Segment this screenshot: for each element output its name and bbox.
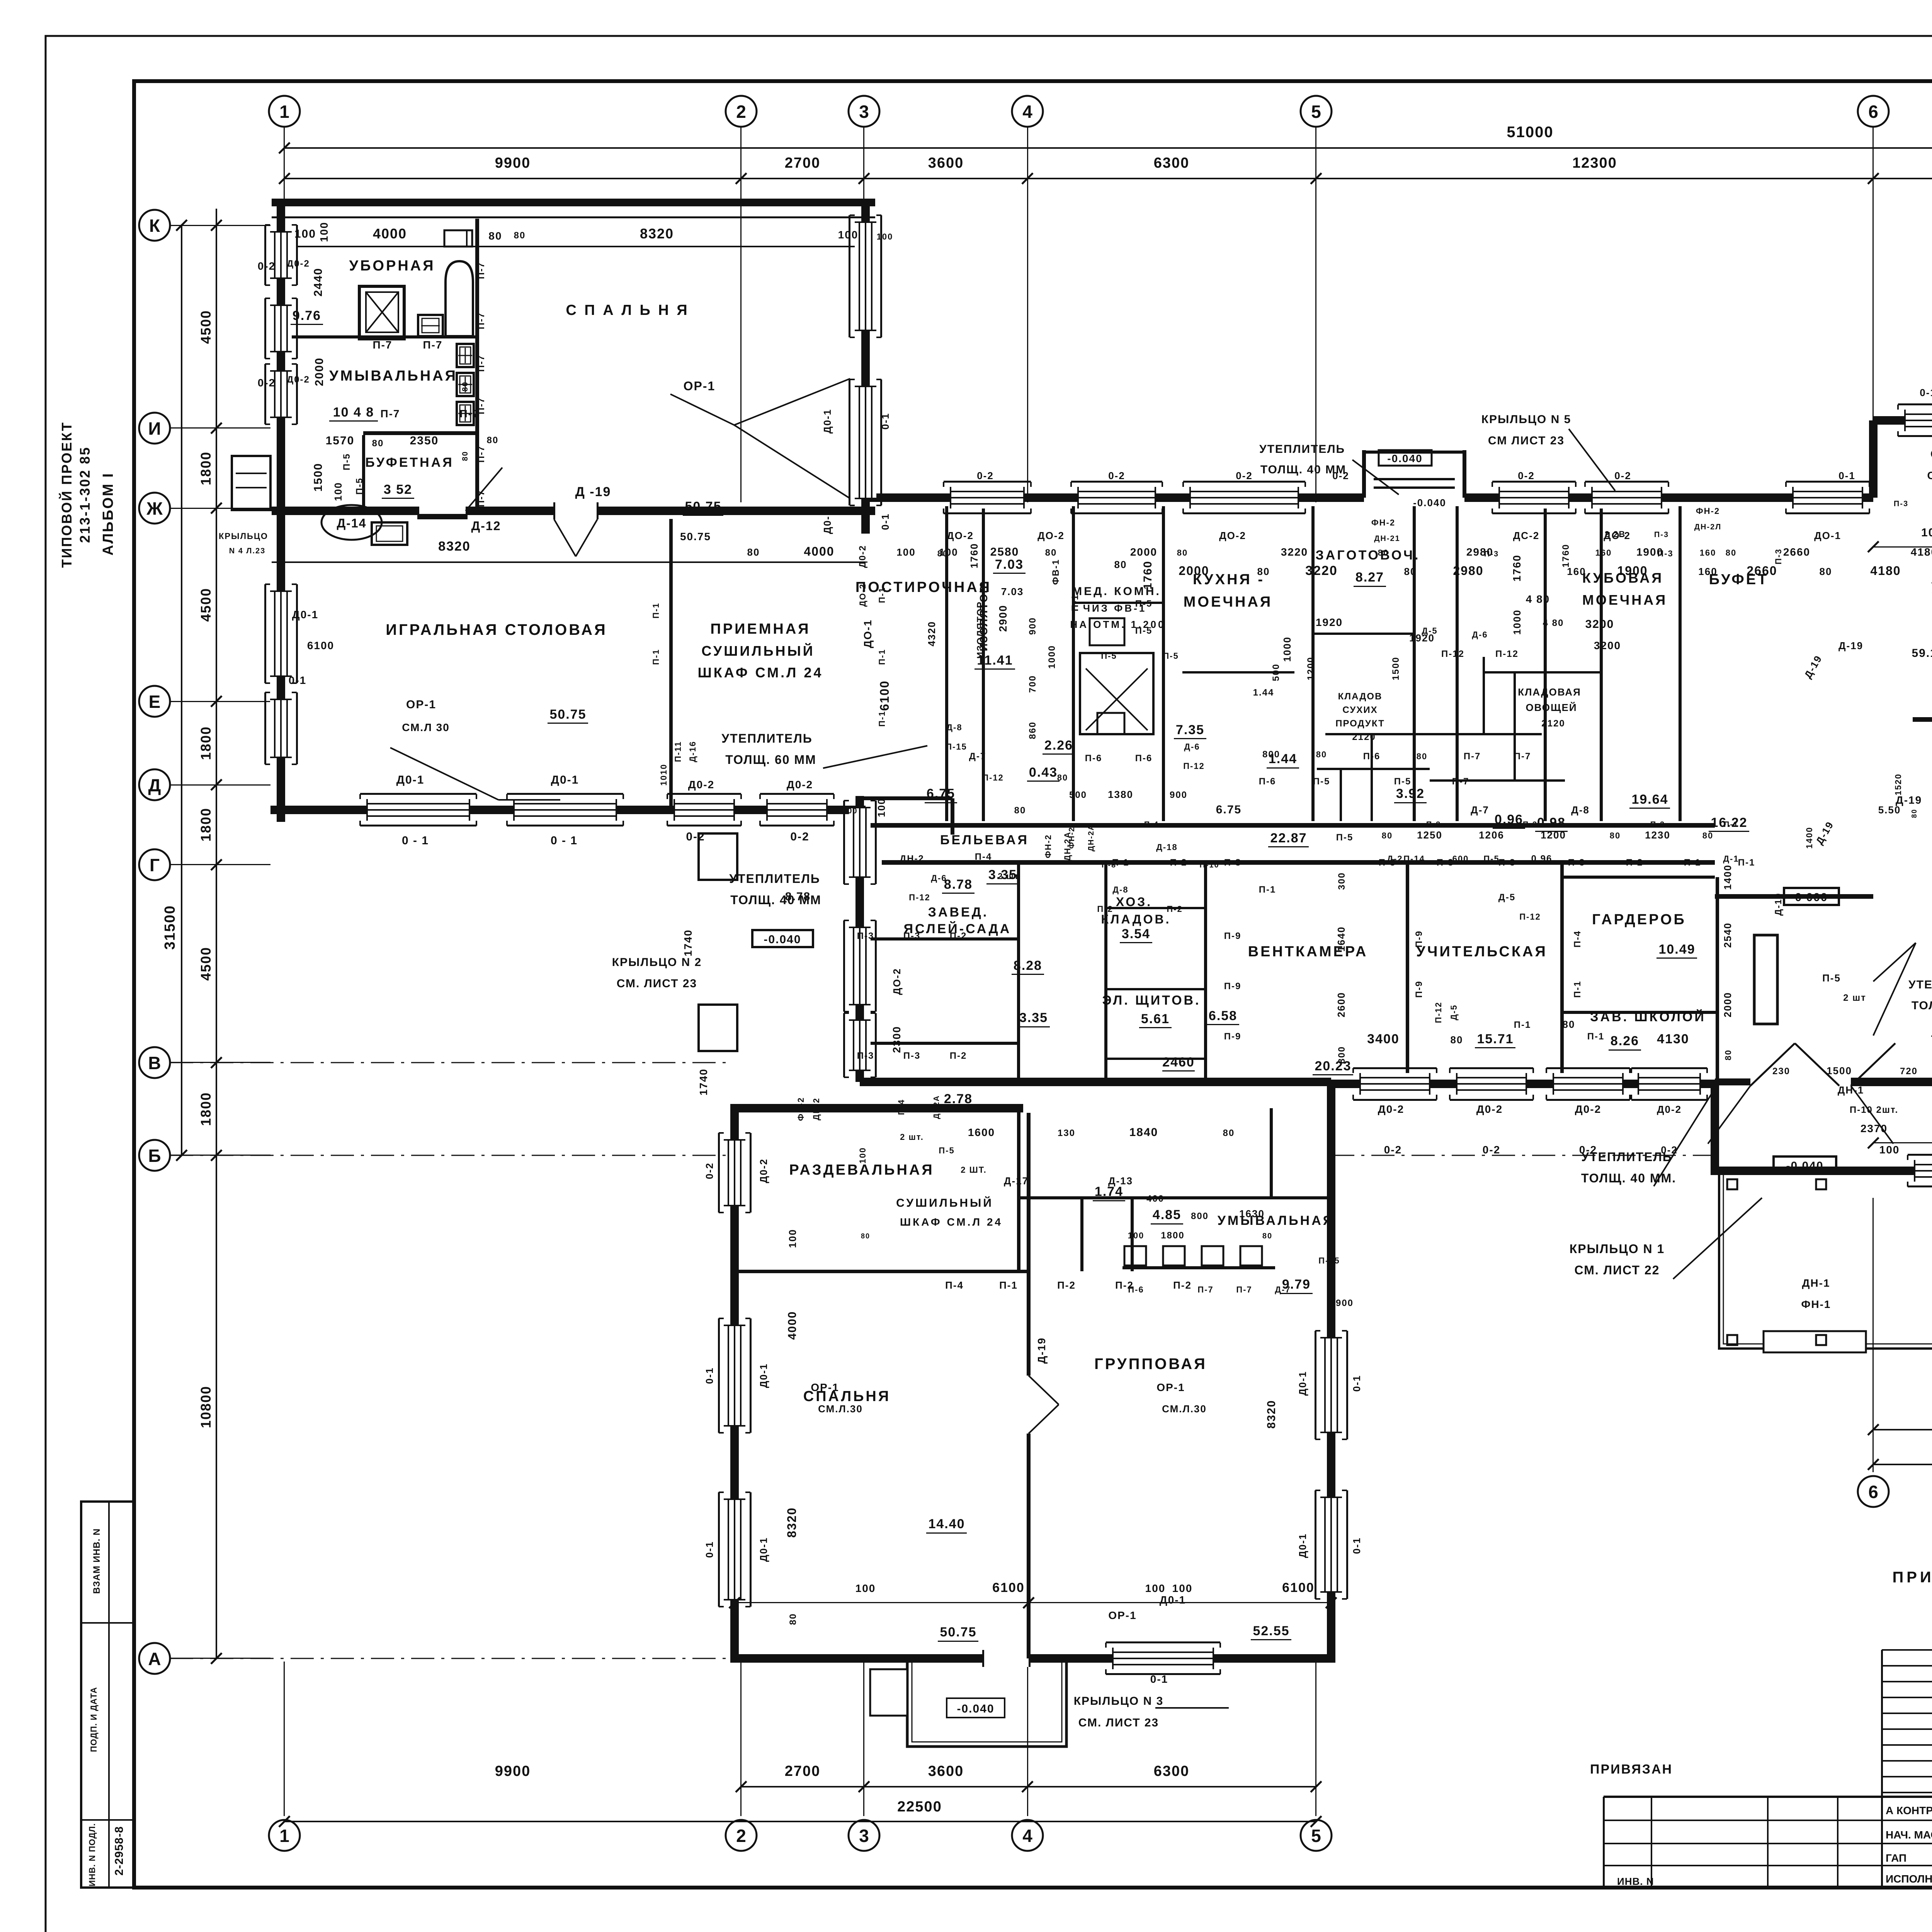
svg-text:1900: 1900 — [1617, 564, 1648, 578]
svg-text:П-7: П-7 — [1452, 776, 1469, 787]
svg-text:П-12: П-12 — [1183, 761, 1205, 771]
svg-text:Д0-1: Д0-1 — [1297, 1533, 1308, 1558]
svg-text:300: 300 — [1337, 872, 1347, 890]
svg-text:П-1: П-1 — [1572, 981, 1583, 998]
title block left small table — [1882, 1649, 1932, 1651]
svg-text:П-15: П-15 — [1318, 1256, 1340, 1265]
sink below wall — [372, 522, 407, 545]
right wing bottom wall (B axis) — [1711, 1167, 1932, 1175]
svg-text:П-7: П-7 — [476, 446, 486, 463]
svg-text:Д0-2: Д0-2 — [1657, 1104, 1682, 1115]
G wall right segment — [1851, 1078, 1932, 1086]
svg-text:1500: 1500 — [312, 463, 325, 492]
svg-text:ПОСТИРОЧНАЯ: ПОСТИРОЧНАЯ — [855, 579, 992, 595]
svg-text:ГАП: ГАП — [1886, 1852, 1906, 1864]
svg-text:80: 80 — [788, 1613, 798, 1625]
svg-text:-0.040: -0.040 — [764, 933, 801, 946]
svg-text:80: 80 — [461, 381, 469, 391]
svg-text:100: 100 — [1145, 1582, 1166, 1594]
svg-text:ИНВ. N ПОДЛ.: ИНВ. N ПОДЛ. — [87, 1823, 97, 1886]
svg-text:ТОЛЩ. 60 ММ: ТОЛЩ. 60 ММ — [725, 753, 816, 767]
svg-text:19.64: 19.64 — [1631, 792, 1668, 807]
svg-text:1760: 1760 — [1141, 561, 1154, 590]
bottom dims — [741, 1786, 1316, 1787]
svg-text:И: И — [148, 418, 161, 439]
svg-text:860: 860 — [1027, 721, 1038, 739]
top segment dims — [284, 178, 1932, 179]
leader lines — [670, 394, 734, 425]
svg-text:1760: 1760 — [968, 543, 980, 568]
svg-text:3220: 3220 — [1305, 563, 1338, 578]
svg-text:ТОЛЩ. 40 ММ: ТОЛЩ. 40 ММ — [730, 893, 821, 907]
partition spalnya west — [475, 219, 479, 511]
partition umyv/bufetnaya (I axis) — [363, 431, 477, 435]
svg-text:ИГРАЛЬНАЯ СТОЛОВАЯ: ИГРАЛЬНАЯ СТОЛОВАЯ — [386, 621, 607, 638]
svg-text:Д0-1: Д0-1 — [758, 1363, 769, 1388]
svg-text:Д0-2: Д0-2 — [1378, 1103, 1404, 1115]
svg-text:ФН-2: ФН-2 — [1043, 834, 1053, 858]
svg-text:4000: 4000 — [786, 1311, 799, 1340]
svg-text:1800: 1800 — [198, 451, 214, 485]
svg-text:Д-5: Д-5 — [1498, 892, 1515, 903]
svg-text:80: 80 — [1820, 566, 1832, 577]
svg-text:0 000: 0 000 — [1795, 891, 1828, 904]
svg-text:4: 4 — [1022, 1826, 1032, 1846]
svg-text:7.03: 7.03 — [995, 557, 1024, 572]
svg-text:Д-5: Д-5 — [1449, 1004, 1459, 1020]
kitchen inner partitions — [1073, 602, 1163, 604]
bottom wing east windows — [1320, 1338, 1342, 1432]
svg-text:160: 160 — [1595, 548, 1612, 558]
svg-text:1000: 1000 — [1047, 645, 1057, 668]
svg-text:П-2: П-2 — [1167, 904, 1182, 914]
svg-text:П-4: П-4 — [975, 852, 992, 862]
shkaf rect in recreation — [1754, 935, 1777, 1024]
svg-text:П-1: П-1 — [877, 649, 887, 665]
svg-text:П-7: П-7 — [476, 490, 486, 507]
svg-text:31500: 31500 — [162, 905, 178, 950]
svg-text:П-5: П-5 — [1163, 651, 1179, 661]
svg-text:ОР-1: ОР-1 — [1156, 1381, 1185, 1393]
svg-text:1200: 1200 — [1541, 829, 1566, 841]
svg-text:1500: 1500 — [1391, 656, 1401, 680]
svg-text:СМ. ЛИСТ 22: СМ. ЛИСТ 22 — [1575, 1263, 1660, 1277]
right wing west wall upper — [1869, 420, 1878, 498]
svg-text:80: 80 — [1563, 1019, 1575, 1030]
svg-text:80: 80 — [1723, 1049, 1733, 1060]
svg-text:2000: 2000 — [1179, 564, 1209, 578]
svg-text:К: К — [149, 216, 160, 236]
mid-left west windows — [849, 808, 871, 877]
svg-text:1800: 1800 — [198, 1092, 214, 1126]
svg-text:ЭЛ. ЩИТОВ.: ЭЛ. ЩИТОВ. — [1102, 993, 1201, 1008]
svg-text:4500: 4500 — [198, 310, 214, 344]
svg-text:2 ШТ.: 2 ШТ. — [961, 1165, 987, 1175]
svg-text:СУХИХ: СУХИХ — [1342, 705, 1378, 715]
svg-text:0-1: 0-1 — [1838, 470, 1855, 481]
porch 3 — [907, 1663, 1066, 1747]
svg-text:П-1: П-1 — [999, 1279, 1018, 1291]
svg-text:2 шт: 2 шт — [998, 871, 1019, 881]
svg-text:УТЕПЛИТЕЛЬ: УТЕПЛИТЕЛЬ — [729, 872, 820, 886]
svg-text:3600: 3600 — [928, 155, 964, 171]
svg-text:4180: 4180 — [1870, 564, 1901, 578]
svg-text:0.43: 0.43 — [1029, 765, 1058, 780]
svg-text:2-2958-8: 2-2958-8 — [113, 1826, 126, 1876]
svg-text:КРЫЛЬЦО N 3: КРЫЛЬЦО N 3 — [1074, 1695, 1164, 1708]
svg-text:СМ.Л.30: СМ.Л.30 — [1162, 1403, 1207, 1415]
svg-text:П-4: П-4 — [1144, 820, 1159, 829]
cistern box top — [444, 230, 472, 247]
svg-text:80: 80 — [1316, 750, 1327, 759]
svg-text:Д0-2: Д0-2 — [1575, 1103, 1601, 1115]
svg-text:СМ.Л.30: СМ.Л.30 — [818, 1403, 863, 1415]
svg-text:Д0-1: Д0-1 — [396, 774, 425, 786]
svg-text:П-5: П-5 — [1394, 776, 1412, 787]
svg-text:3: 3 — [859, 1826, 869, 1846]
svg-text:700: 700 — [1027, 675, 1038, 693]
svg-text:П-9: П-9 — [1224, 981, 1242, 992]
top-left east wall windows (O-1) — [855, 222, 876, 330]
svg-text:П-12: П-12 — [909, 893, 930, 902]
svg-text:-0.040: -0.040 — [1786, 1160, 1823, 1172]
svg-text:0-2: 0-2 — [258, 260, 276, 272]
porch 4 (top-left) — [232, 456, 270, 510]
svg-text:100: 100 — [787, 1229, 798, 1248]
svg-text:ФН-1: ФН-1 — [1801, 1298, 1831, 1310]
svg-text:0-2: 0-2 — [977, 470, 994, 481]
svg-text:СМ. ЛИСТ 23: СМ. ЛИСТ 23 — [617, 977, 697, 990]
svg-text:2120: 2120 — [1541, 718, 1565, 729]
svg-text:КРЫЛЬЦО N 5: КРЫЛЬЦО N 5 — [1481, 413, 1571, 426]
svg-text:Д-19: Д-19 — [1036, 1337, 1048, 1364]
door D-19 in axis4 partition — [1020, 1376, 1037, 1434]
bottom wing inner dim line — [735, 1602, 1331, 1603]
svg-text:100: 100 — [294, 228, 316, 240]
svg-text:П-2: П-2 — [1057, 1279, 1076, 1291]
svg-text:П-3: П-3 — [1650, 820, 1665, 829]
svg-text:П-2: П-2 — [1173, 1279, 1192, 1291]
svg-text:КЛАДОВ.: КЛАДОВ. — [1101, 912, 1171, 926]
svg-text:П-7: П-7 — [380, 408, 400, 420]
svg-text:80: 80 — [1451, 1034, 1463, 1046]
svg-text:П-12: П-12 — [1434, 1002, 1443, 1023]
svg-text:6.75: 6.75 — [927, 786, 955, 801]
svg-text:Д: Д — [148, 775, 161, 795]
svg-text:СМ.Л 30: СМ.Л 30 — [402, 721, 450, 733]
svg-text:0-1: 0-1 — [1920, 387, 1932, 398]
svg-text:80: 80 — [861, 1232, 870, 1240]
svg-text:5.50: 5.50 — [1878, 804, 1901, 816]
svg-text:0-2: 0-2 — [258, 377, 276, 389]
svg-text:ГАРДЕРОБ: ГАРДЕРОБ — [1592, 912, 1686, 928]
svg-text:1.44: 1.44 — [1253, 687, 1274, 698]
svg-text:БУФЕТНАЯ: БУФЕТНАЯ — [365, 455, 454, 470]
svg-text:1010: 1010 — [659, 764, 668, 786]
svg-text:100: 100 — [1879, 1144, 1900, 1156]
svg-text:8.28: 8.28 — [1014, 958, 1042, 973]
svg-text:П-9: П-9 — [1414, 930, 1424, 948]
svg-text:П-9: П-9 — [1224, 931, 1242, 941]
svg-text:600: 600 — [1452, 854, 1469, 864]
svg-text:1920: 1920 — [1409, 632, 1435, 644]
svg-text:Д0-2: Д0-2 — [758, 1158, 769, 1183]
svg-text:СУШИЛЬНЫЙ: СУШИЛЬНЫЙ — [701, 643, 815, 659]
svg-text:1400: 1400 — [1804, 827, 1814, 849]
svg-text:П-1: П-1 — [1259, 884, 1276, 895]
svg-text:2120: 2120 — [1352, 732, 1376, 742]
door BD-1 bottom — [983, 1650, 1030, 1667]
svg-text:0-1: 0-1 — [704, 1541, 715, 1558]
svg-text:Д-7: Д-7 — [969, 751, 986, 762]
svg-text:П-7: П-7 — [1236, 1285, 1252, 1294]
svg-text:80: 80 — [1057, 773, 1068, 782]
svg-text:80: 80 — [514, 230, 526, 241]
svg-text:МОЕЧНАЯ: МОЕЧНАЯ — [1582, 592, 1667, 608]
svg-text:0-1: 0-1 — [879, 413, 891, 430]
center-bottom wall windows — [1360, 1073, 1430, 1095]
svg-text:ОР-1: ОР-1 — [811, 1381, 839, 1393]
recreation top wall — [1715, 894, 1873, 899]
svg-text:2900: 2900 — [997, 605, 1009, 632]
svg-text:4000: 4000 — [804, 544, 834, 558]
svg-text:П-2: П-2 — [1626, 857, 1643, 868]
svg-text:ДН-2Л: ДН-2Л — [1694, 523, 1722, 531]
svg-text:8.78: 8.78 — [944, 877, 973, 892]
svg-text:100: 100 — [842, 807, 857, 815]
svg-text:6100: 6100 — [992, 1580, 1025, 1595]
svg-text:П-10 2шт.: П-10 2шт. — [1850, 1105, 1898, 1115]
svg-text:Ж: Ж — [146, 498, 163, 519]
svg-text:УМЫВАЛЬНАЯ: УМЫВАЛЬНАЯ — [1218, 1213, 1334, 1228]
svg-text:П-5: П-5 — [1135, 626, 1153, 636]
svg-text:Д-17: Д-17 — [1004, 1175, 1029, 1187]
svg-text:0-2: 0-2 — [686, 830, 705, 843]
svg-text:80: 80 — [1378, 548, 1389, 558]
svg-text:Д0-1: Д0-1 — [551, 774, 579, 786]
svg-text:СУШИЛЬНЫЙ: СУШИЛЬНЫЙ — [896, 1196, 993, 1209]
bottom wing west windows — [724, 1140, 745, 1206]
svg-text:1900: 1900 — [1636, 546, 1663, 558]
svg-text:ДН-2: ДН-2 — [811, 1097, 821, 1120]
svg-text:ДО-2: ДО-2 — [947, 530, 974, 541]
svg-text:0.98: 0.98 — [1537, 815, 1566, 830]
svg-text:ШКАФ СМ.Л 24: ШКАФ СМ.Л 24 — [698, 665, 823, 680]
svg-text:ИНВ. N: ИНВ. N — [1617, 1876, 1654, 1887]
svg-text:2: 2 — [736, 102, 746, 122]
svg-text:2.78: 2.78 — [944, 1092, 973, 1106]
svg-text:2300: 2300 — [891, 1026, 903, 1053]
bufetnaya walls — [362, 435, 365, 511]
svg-text:Д0-2: Д0-2 — [688, 779, 714, 791]
svg-text:ЗАВ. ШКОЛОЙ: ЗАВ. ШКОЛОЙ — [1590, 1009, 1706, 1024]
svg-text:Д0-2: Д0-2 — [1476, 1103, 1503, 1115]
svg-text:СМ Л-30: СМ Л-30 — [1927, 469, 1932, 481]
svg-text:ФВ-1: ФВ-1 — [1051, 559, 1061, 585]
svg-text:Д-6: Д-6 — [931, 873, 947, 883]
svg-text:П-5: П-5 — [939, 1146, 954, 1155]
svg-text:ШКАФ СМ.Л 24: ШКАФ СМ.Л 24 — [900, 1216, 1003, 1228]
svg-text:9.76: 9.76 — [293, 308, 321, 323]
svg-text:П-5: П-5 — [1822, 972, 1841, 984]
svg-text:0-2: 0-2 — [1518, 470, 1535, 481]
svg-text:3.35: 3.35 — [1019, 1010, 1048, 1025]
bottom wing south window — [1113, 1648, 1213, 1669]
svg-text:1800: 1800 — [1161, 1230, 1184, 1241]
svg-text:6.58: 6.58 — [1209, 1009, 1237, 1023]
svg-text:14.40: 14.40 — [928, 1517, 965, 1531]
porch 5 bump — [1362, 450, 1366, 498]
svg-text:100: 100 — [1172, 1582, 1193, 1594]
svg-text:1740: 1740 — [697, 1068, 709, 1095]
entrance doors DN-1 in G wall — [1750, 1043, 1795, 1086]
top-left block outline — [272, 199, 875, 206]
svg-text:10.49: 10.49 — [1658, 942, 1695, 957]
svg-text:100: 100 — [876, 798, 887, 817]
svg-text:15.71: 15.71 — [1477, 1032, 1514, 1046]
svg-text:5: 5 — [1311, 102, 1321, 122]
svg-text:900: 900 — [1027, 617, 1038, 635]
svg-text:Д -19: Д -19 — [575, 485, 611, 499]
svg-text:100: 100 — [318, 222, 330, 242]
svg-text:П-6: П-6 — [1259, 776, 1276, 787]
center-bottom wall over porch1 — [1331, 1080, 1719, 1088]
bottom wing partitions — [1027, 1113, 1031, 1658]
svg-text:3600: 3600 — [928, 1763, 964, 1779]
svg-text:500: 500 — [1069, 790, 1087, 800]
svg-text:КЛАДОВАЯ: КЛАДОВАЯ — [1518, 686, 1581, 698]
svg-text:0-2: 0-2 — [1332, 470, 1349, 481]
svg-text:-0.040: -0.040 — [1387, 452, 1422, 464]
svg-text:80: 80 — [747, 546, 760, 558]
svg-text:ДО-2: ДО-2 — [858, 583, 867, 607]
svg-text:0-2: 0-2 — [704, 1162, 715, 1179]
svg-text:П-5: П-5 — [1313, 776, 1330, 787]
svg-text:Д-7: Д-7 — [1471, 804, 1489, 816]
svg-text:0.96: 0.96 — [1531, 854, 1553, 864]
svg-text:П-7: П-7 — [476, 312, 486, 330]
svg-text:П-4: П-4 — [1572, 930, 1583, 948]
svg-text:ОР-1: ОР-1 — [684, 379, 716, 393]
svg-text:УМЫВАЛЬНАЯ: УМЫВАЛЬНАЯ — [329, 368, 457, 384]
svg-text:ОР-1: ОР-1 — [406, 698, 436, 711]
svg-text:П-3: П-3 — [1654, 531, 1669, 539]
svg-text:4 80: 4 80 — [1543, 618, 1564, 628]
svg-text:3.54: 3.54 — [1122, 927, 1150, 941]
bottom wing east wall — [1327, 1084, 1335, 1662]
svg-text:КЛАДОВ: КЛАДОВ — [1338, 691, 1383, 702]
svg-text:80: 80 — [617, 807, 627, 815]
svg-text:П-14: П-14 — [1403, 854, 1425, 864]
svg-text:50.75: 50.75 — [549, 707, 586, 722]
svg-text:80: 80 — [1223, 1128, 1235, 1138]
mid-left top walls near belyevaya — [860, 796, 952, 800]
svg-text:ФН-2: ФН-2 — [1371, 518, 1395, 527]
svg-text:П-10: П-10 — [1199, 861, 1219, 869]
svg-text:0-1: 0-1 — [1351, 1537, 1362, 1554]
svg-text:51000: 51000 — [1507, 124, 1553, 141]
svg-text:4130: 4130 — [1657, 1032, 1689, 1046]
svg-text:П-5: П-5 — [1101, 651, 1117, 661]
svg-text:П-12: П-12 — [1495, 649, 1519, 659]
svg-text:СМ ЛИСТ 23: СМ ЛИСТ 23 — [1488, 434, 1565, 447]
privyazan table — [1604, 1796, 1932, 1798]
svg-text:ДН-2: ДН-2 — [900, 854, 924, 864]
svg-text:2700: 2700 — [785, 155, 821, 171]
-0.040 box top (porch5) — [1379, 450, 1432, 466]
svg-text:СМ. ЛИСТ 23: СМ. ЛИСТ 23 — [1078, 1716, 1159, 1729]
washbasins column — [457, 344, 474, 367]
recreation west wall / center-bottom vertical — [1711, 1084, 1719, 1171]
svg-text:Д-10: Д-10 — [1773, 893, 1784, 916]
svg-text:КРЫЛЬЦО N 2: КРЫЛЬЦО N 2 — [612, 956, 702, 969]
central band partitions — [982, 506, 985, 821]
svg-text:100: 100 — [1921, 526, 1932, 539]
svg-text:52.55: 52.55 — [1253, 1624, 1289, 1638]
svg-text:720: 720 — [1900, 1066, 1918, 1077]
corridor walls (D/G axes) — [866, 823, 1715, 828]
svg-text:4500: 4500 — [198, 588, 214, 622]
svg-text:500: 500 — [1271, 663, 1281, 681]
svg-text:2000: 2000 — [313, 357, 326, 386]
svg-text:П-2: П-2 — [1170, 857, 1187, 868]
svg-text:ДН-2А: ДН-2А — [1087, 824, 1095, 852]
svg-text:100: 100 — [838, 229, 859, 241]
svg-text:4.85: 4.85 — [1153, 1207, 1181, 1222]
svg-text:80: 80 — [1014, 805, 1026, 816]
svg-text:230: 230 — [1772, 1066, 1790, 1077]
svg-text:4320: 4320 — [926, 621, 937, 646]
left axis letters — [139, 210, 170, 241]
svg-text:Д-8: Д-8 — [946, 723, 962, 732]
svg-text:8.26: 8.26 — [1611, 1034, 1639, 1048]
svg-text:ХОЗ.: ХОЗ. — [1116, 895, 1152, 909]
svg-text:П-12: П-12 — [1519, 912, 1541, 922]
svg-text:2980: 2980 — [1466, 546, 1493, 558]
svg-text:8.27: 8.27 — [1355, 570, 1384, 585]
svg-text:3400: 3400 — [1367, 1032, 1400, 1046]
bottom wing west wall — [730, 1105, 739, 1662]
svg-text:2370: 2370 — [1861, 1122, 1888, 1134]
svg-text:ВЗАМ ИНВ. N: ВЗАМ ИНВ. N — [92, 1528, 102, 1594]
svg-text:Д0-1: Д0-1 — [1160, 1594, 1186, 1606]
svg-text:П-3: П-3 — [1894, 500, 1908, 508]
svg-text:Д0-2: Д0-2 — [287, 259, 310, 269]
svg-text:ДО-2: ДО-2 — [1219, 530, 1246, 541]
svg-text:3200: 3200 — [1594, 639, 1621, 651]
svg-text:213-1-302 85: 213-1-302 85 — [77, 446, 93, 543]
svg-text:80: 80 — [1417, 752, 1427, 761]
svg-text:Д-16: Д-16 — [688, 741, 697, 762]
svg-text:Д-6: Д-6 — [1184, 742, 1200, 752]
svg-text:12300: 12300 — [1572, 155, 1617, 171]
svg-text:П-3: П-3 — [1523, 820, 1537, 829]
svg-text:ДО-2: ДО-2 — [891, 968, 903, 995]
svg-text:160: 160 — [1698, 566, 1717, 577]
svg-text:7.35: 7.35 — [1176, 723, 1204, 737]
svg-text:ОР-1: ОР-1 — [1930, 448, 1932, 461]
svg-text:0-2: 0-2 — [1661, 1144, 1678, 1156]
svg-text:6300: 6300 — [1154, 1763, 1190, 1779]
svg-text:6100: 6100 — [878, 680, 891, 711]
svg-text:П-1: П-1 — [1738, 857, 1755, 868]
svg-text:Д-8: Д-8 — [1571, 804, 1590, 816]
svg-text:ОР-1: ОР-1 — [1108, 1609, 1136, 1621]
svg-text:2580: 2580 — [990, 546, 1019, 558]
left vertical dims — [216, 209, 217, 1658]
svg-text:80: 80 — [1114, 559, 1127, 570]
svg-text:1500: 1500 — [1827, 1065, 1852, 1077]
